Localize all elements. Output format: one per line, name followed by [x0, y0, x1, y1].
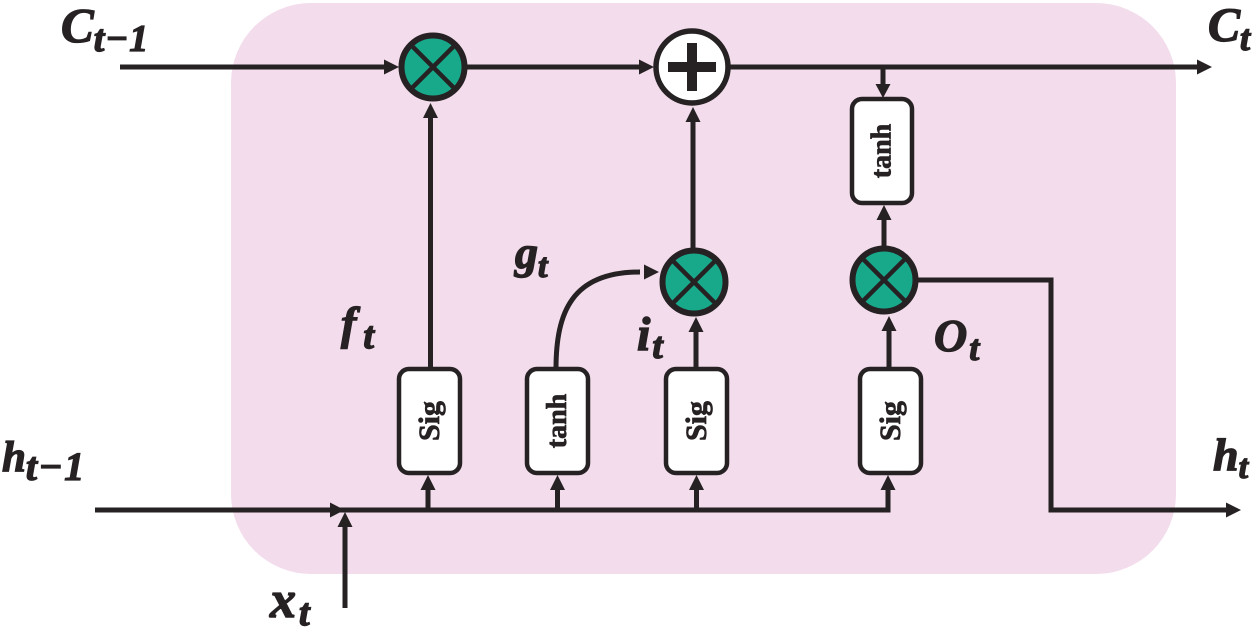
- arrowhead h_t output: [1226, 503, 1241, 518]
- arrowhead g_t into M2: [644, 265, 659, 280]
- wire: x_t input vertical: [343, 524, 348, 608]
- LSTM cell body (pink rounded rect): [231, 3, 1176, 574]
- wire: B4 up to M3: [887, 331, 892, 369]
- svg-text:Sig: Sig: [413, 401, 446, 441]
- arrowhead into add gate bottom: [686, 107, 701, 122]
- wire: top line segment 3: [730, 65, 1197, 70]
- arrowhead x_t into h line: [338, 512, 353, 527]
- arrowhead into B3 bottom: [689, 475, 704, 490]
- wire: g_t curve from tanh box B2 to M2: [556, 272, 640, 369]
- tanh box B2 (candidate): [527, 369, 588, 473]
- arrowhead mid h line: [330, 503, 345, 518]
- wire: bottom h line with corner up into B4: [95, 490, 888, 510]
- wire: top line segment 2: [467, 65, 640, 70]
- Sig box B1 (forget gate): [399, 369, 460, 473]
- arrowhead into tanh box: [876, 84, 891, 98]
- arrowhead into M3 bottom: [882, 316, 897, 331]
- wire: M2 up to add gate: [691, 122, 696, 248]
- wire: drop from top line into tanh box: [881, 69, 886, 84]
- arrowhead into B1 bottom: [421, 475, 436, 490]
- add gate (plus circle): [656, 31, 728, 103]
- multiply gate M3 (output): [853, 249, 916, 312]
- Sig box B4 (output gate): [860, 369, 921, 473]
- wire: B1 up to M1: [428, 118, 433, 369]
- svg-text:tanh: tanh: [867, 123, 898, 178]
- wire: multiply gate M3 up to tanh box: [882, 220, 887, 247]
- multiply gate M1 (forget): [402, 36, 465, 99]
- arrowhead C_t output: [1197, 60, 1212, 75]
- wire: output h path from M3, right then down then right: [916, 280, 1226, 510]
- wire: stub into B3 bottom: [694, 490, 699, 508]
- arrowhead into M2 bottom: [689, 317, 704, 332]
- arrowhead into B2 bottom: [550, 475, 565, 490]
- tanh box (output activation): [852, 99, 912, 203]
- Sig box B3 (input gate): [666, 369, 727, 473]
- wire: cell state line C (top), segment 1: [120, 65, 385, 70]
- arrowhead into M1 bottom: [423, 103, 438, 118]
- svg-text:Sig: Sig: [874, 401, 907, 441]
- arrowhead into add gate: [639, 60, 654, 75]
- arrowhead into multiply gate M1: [384, 60, 399, 75]
- svg-text:tanh: tanh: [542, 393, 573, 448]
- wire: stub into B1 bottom: [426, 490, 431, 508]
- svg-text:Sig: Sig: [680, 401, 713, 441]
- multiply gate M2 (input): [663, 251, 726, 314]
- wire: stub into B2 bottom: [555, 490, 560, 508]
- arrowhead into B4 bottom: [881, 475, 896, 490]
- arrowhead into tanh box bottom: [877, 205, 892, 220]
- wire: B3 up to M2: [694, 332, 699, 369]
